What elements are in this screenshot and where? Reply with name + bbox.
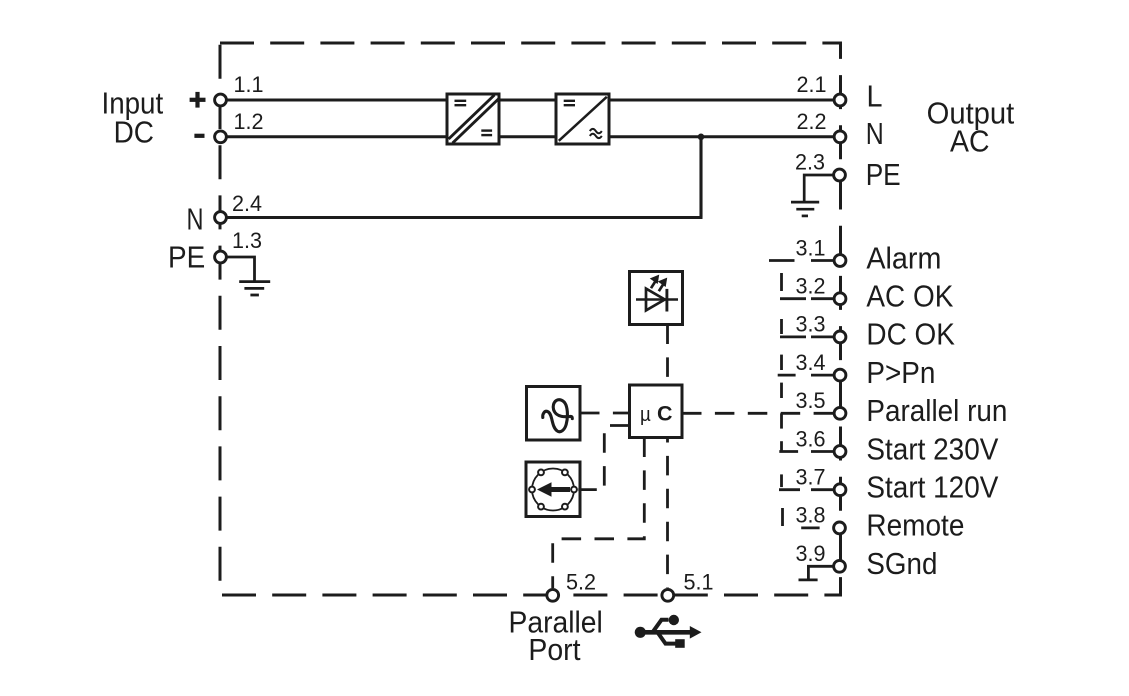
polarity plus: [190, 92, 206, 138]
dashed bus taps to terminals: [769, 261, 820, 528]
terminal 2.3 PE: [834, 169, 846, 181]
svg-text:N: N: [187, 202, 204, 237]
svg-text:2.2: 2.2: [797, 109, 827, 134]
svg-text:AC OK: AC OK: [866, 279, 953, 314]
wire N (2.4) horizontal: [226, 216, 703, 219]
svg-text:3.5: 3.5: [796, 388, 826, 413]
svg-text:3.3: 3.3: [796, 312, 826, 337]
svg-text:1.1: 1.1: [234, 72, 264, 97]
svg-text:3.8: 3.8: [796, 503, 826, 528]
svg-text:5.1: 5.1: [684, 570, 714, 595]
terminal 1.2: [215, 131, 227, 143]
terminal 3.7: [834, 484, 846, 496]
dashed wire LED to uC: [666, 325, 669, 386]
wire input + (1.1 to 2.1): [226, 99, 834, 102]
dashed wire uC to rotary: [604, 426, 629, 490]
terminal 2.2 N: [834, 131, 846, 143]
svg-text:AC: AC: [950, 124, 990, 159]
terminal 3.3: [834, 331, 846, 343]
svg-text:5.2: 5.2: [566, 570, 596, 595]
thermal sensor B1: [527, 387, 581, 441]
terminal 3.5: [834, 407, 846, 419]
svg-text:C: C: [657, 402, 673, 426]
svg-text:L: L: [867, 79, 883, 114]
LED D1: [630, 272, 683, 325]
svg-text:Remote: Remote: [866, 508, 964, 543]
svg-text:DC OK: DC OK: [866, 317, 955, 352]
terminal 2.1 L: [834, 94, 846, 106]
svg-text:Alarm: Alarm: [866, 240, 941, 275]
theta symbol: [543, 400, 573, 432]
svg-text:3.1: 3.1: [796, 235, 826, 260]
polarity minus: [194, 134, 204, 138]
terminal 3.6: [834, 446, 846, 458]
dashed wire uC to 5.1: [666, 438, 669, 589]
USB icon: [635, 615, 702, 648]
svg-text:P>Pn: P>Pn: [866, 355, 935, 390]
dashed signal bus vertical segments: [782, 273, 783, 526]
svg-text:3.4: 3.4: [796, 350, 826, 375]
svg-text:3.6: 3.6: [796, 426, 826, 451]
ground PE 1.3: [227, 257, 270, 295]
terminal stubs 3.1-3.7: [811, 261, 834, 490]
terminal 3.9: [834, 560, 846, 572]
svg-text:3.2: 3.2: [796, 274, 826, 299]
wire N return vertical: [699, 137, 702, 218]
terminal 1.3 PE: [215, 251, 227, 263]
svg-text:PE: PE: [866, 157, 901, 192]
dashed wire uC to 5.2: [553, 438, 645, 589]
wire rotary output: [578, 488, 597, 491]
terminal 5.2: [547, 589, 559, 601]
svg-text:N: N: [866, 116, 884, 151]
svg-text:Parallel run: Parallel run: [866, 393, 1007, 428]
ground PE 2.3: [791, 175, 833, 216]
terminal 3.8: [834, 522, 846, 534]
dashed enclosure border: [220, 43, 841, 595]
svg-text:Start 230V: Start 230V: [866, 431, 998, 466]
node junction dot: [698, 134, 705, 141]
svg-text:µ: µ: [640, 404, 651, 426]
svg-text:PE: PE: [168, 240, 205, 275]
terminal 5.1: [662, 589, 674, 601]
svg-text:2.3: 2.3: [795, 150, 825, 175]
terminal 2.4 N: [215, 212, 227, 224]
terminal 3.2: [834, 293, 846, 305]
wire input - (1.2 to 2.2): [226, 135, 834, 138]
dashed wire uC to terminal 3.5: [682, 412, 833, 415]
terminal 3.4: [834, 369, 846, 381]
svg-text:DC: DC: [114, 115, 154, 150]
svg-text:2.4: 2.4: [232, 191, 262, 216]
svg-text:SGnd: SGnd: [866, 546, 937, 581]
rotary selector S1: [526, 462, 597, 517]
converter U1 DC/DC: [447, 94, 499, 144]
svg-text:1.3: 1.3: [232, 228, 262, 253]
svg-text:Port: Port: [528, 632, 580, 667]
svg-text:1.2: 1.2: [234, 109, 264, 134]
svg-text:3.9: 3.9: [796, 541, 826, 566]
terminal 1.1: [215, 94, 227, 106]
svg-text:Start 120V: Start 120V: [866, 470, 998, 505]
converter U2 DC/AC inverter: [556, 94, 609, 144]
svg-text:3.7: 3.7: [796, 465, 826, 490]
microcontroller U3: [630, 385, 683, 438]
dashed wire sensor to uC: [580, 412, 630, 415]
signal ground 3.9: [799, 566, 834, 580]
terminal 3.1: [834, 255, 846, 267]
svg-text:2.1: 2.1: [797, 72, 827, 97]
